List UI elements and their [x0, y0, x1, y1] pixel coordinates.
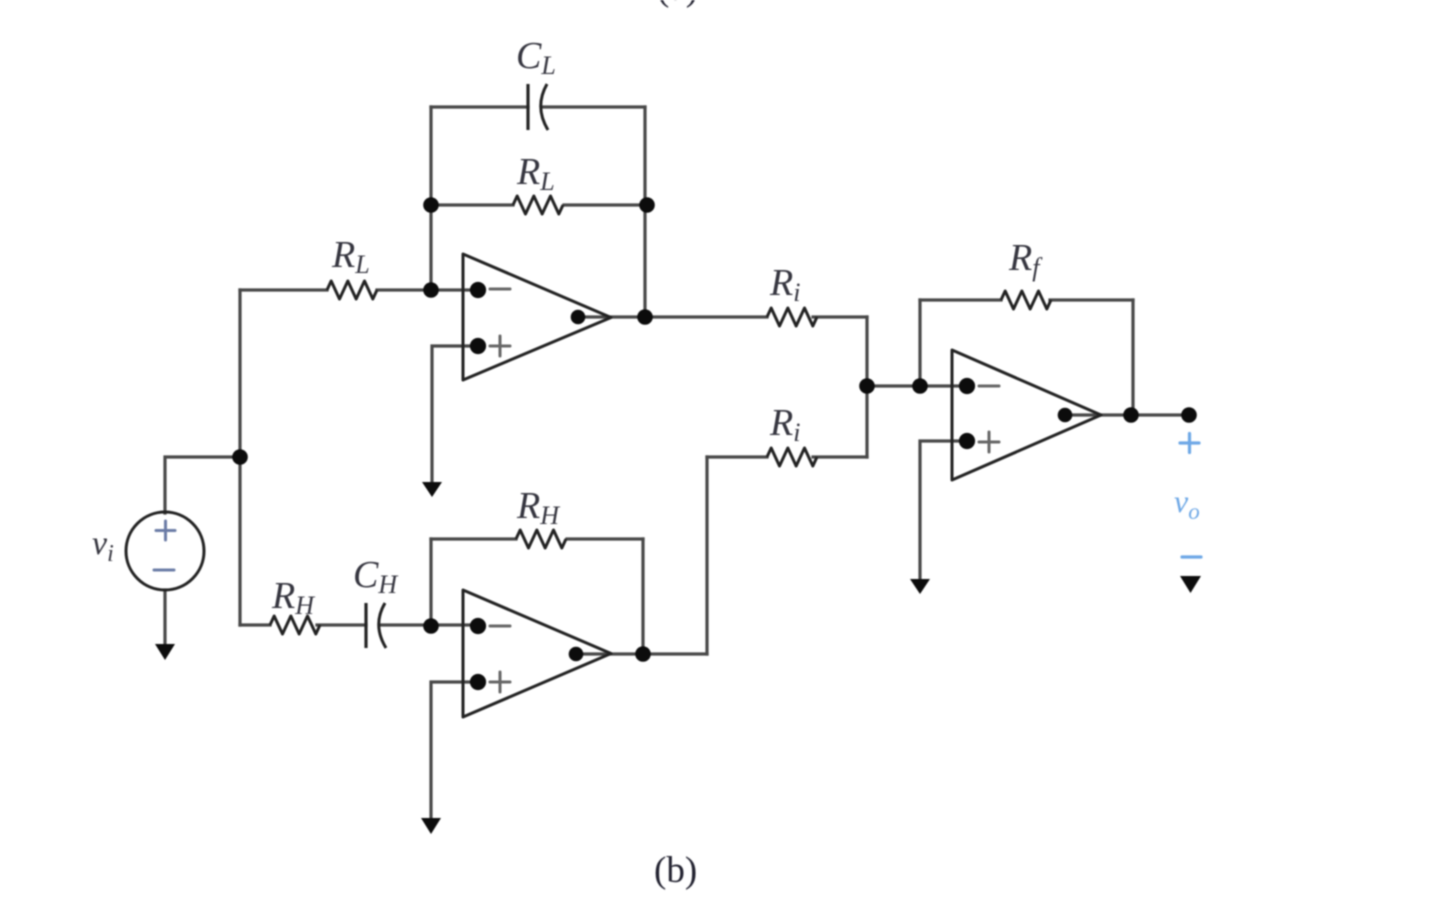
svg-text:RH: RH	[516, 485, 560, 530]
svg-text:vo: vo	[1174, 483, 1200, 524]
svg-text:Rf: Rf	[1008, 237, 1043, 282]
svg-text:RH: RH	[271, 575, 315, 620]
svg-text:(b): (b)	[654, 850, 697, 891]
svg-text:vi: vi	[92, 525, 114, 567]
svg-text:RL: RL	[331, 234, 370, 279]
svg-text:Ri: Ri	[769, 262, 800, 307]
svg-text:RL: RL	[516, 151, 555, 196]
svg-text:CH: CH	[353, 554, 398, 599]
svg-text:(a): (a)	[657, 0, 698, 9]
svg-text:Ri: Ri	[769, 402, 800, 447]
svg-text:CL: CL	[516, 35, 556, 80]
